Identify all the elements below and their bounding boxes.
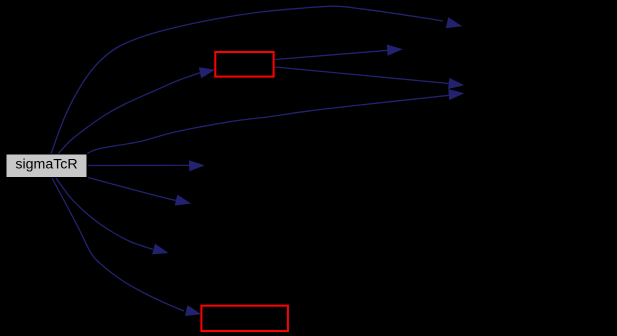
svg-text:sigmaTcR: sigmaTcR <box>15 157 77 173</box>
